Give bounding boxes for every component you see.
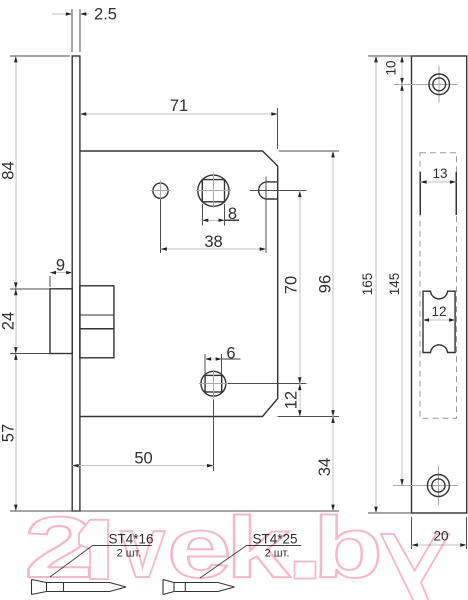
- dim 20 line: [412, 544, 467, 546]
- svg-text:96: 96: [317, 275, 335, 293]
- dim 8 line: [202, 219, 224, 221]
- dim 70/12 vertical line: [299, 191, 301, 417]
- svg-text:165: 165: [360, 273, 375, 296]
- dim 2.5 line and arrows: [52, 13, 72, 15]
- lower square 6mm: [205, 375, 222, 392]
- bottom screw hole inner circle: [432, 479, 445, 492]
- latch cutout with arcs: [423, 291, 455, 352]
- dim 24 arrows: [14, 289, 17, 295]
- case bottom extension right: [278, 416, 339, 418]
- front plate bottom edge extension left: [368, 512, 412, 514]
- screw ST4*16 drawing: [32, 580, 127, 595]
- latch housing internal line upper: [80, 314, 114, 316]
- label ST4*16 leader line: [50, 546, 152, 578]
- dim 165 vertical line: [375, 56, 377, 513]
- bottom screw hole centerline vertical: [437, 466, 439, 505]
- bottom extension line: [10, 510, 339, 512]
- dim 6 line: [205, 358, 222, 360]
- latch housing inside case: [80, 286, 114, 358]
- spindle centermark: [196, 190, 231, 192]
- dim 2.5 extension lines: [71, 9, 73, 52]
- dim 84/24/57 vertical line: [15, 56, 17, 511]
- case top extension right for 96: [279, 150, 339, 152]
- dim 71 line: [80, 113, 278, 115]
- dim 9 line: [50, 272, 72, 274]
- svg-text:ST4*25: ST4*25: [252, 532, 297, 547]
- dim 6 extension lines: [204, 354, 206, 375]
- svg-text:71: 71: [170, 97, 188, 115]
- lower spindle hole circle: [201, 371, 226, 396]
- dim 8 extension lines: [201, 204, 203, 226]
- lower hole extension to 70 dim: [228, 383, 307, 385]
- svg-text:145: 145: [387, 273, 402, 296]
- latch bolt (protruding): [50, 289, 72, 354]
- svg-text:24: 24: [0, 312, 18, 330]
- dim 20 extension lines: [411, 517, 413, 549]
- latch top edge extension: [10, 288, 50, 290]
- dim 50 extension line from lower hole: [212, 400, 214, 472]
- svg-text:38: 38: [204, 233, 222, 251]
- lower hole centermark: [199, 383, 228, 385]
- dim 34 arrows: [331, 417, 335, 423]
- dim 50 line: [72, 465, 213, 467]
- svg-text:2 шт.: 2 шт.: [265, 548, 290, 560]
- front plate top edge extension left: [368, 55, 412, 57]
- spindle square 8mm: [202, 180, 224, 202]
- svg-text:50: 50: [134, 450, 152, 468]
- svg-text:20: 20: [433, 529, 448, 544]
- dim 10/145 vertical line: [401, 56, 403, 486]
- dim 84 arrows: [14, 56, 17, 62]
- dim 38 line: [161, 248, 267, 250]
- slot centerline extension to 70 dim: [250, 190, 307, 192]
- dim 38 extension lines: [160, 199, 162, 253]
- bottom screw hole outer circle: [427, 475, 449, 497]
- spindle hole circle: [198, 175, 229, 206]
- dim 12 arrows: [298, 384, 302, 390]
- top screw hole centerline vertical: [438, 66, 440, 103]
- front faceplate outline: [412, 56, 467, 513]
- top screw hole inner circle: [433, 78, 446, 91]
- dim 10 arrows: [400, 56, 404, 62]
- dashed cutout zone: [420, 153, 457, 419]
- svg-text:8: 8: [228, 205, 237, 223]
- dim 96 arrows: [331, 151, 335, 157]
- svg-text:9: 9: [56, 257, 65, 275]
- svg-text:10: 10: [384, 60, 399, 75]
- faceplate side view (thin strip): [72, 56, 80, 511]
- top screw hole outer circle: [429, 74, 450, 95]
- svg-text:57: 57: [0, 424, 18, 442]
- dim 96/34 vertical line: [332, 151, 334, 511]
- svg-text:13: 13: [432, 166, 447, 181]
- svg-text:2 шт.: 2 шт.: [117, 548, 142, 560]
- latch bottom edge extension: [10, 353, 50, 355]
- dim 57 arrows: [14, 354, 17, 360]
- dim 13 extension overlays: [419, 172, 421, 215]
- latch housing internal line lower: [80, 328, 114, 330]
- dim 12 line (front plate): [423, 319, 455, 321]
- screw ST4*25 drawing: [163, 580, 235, 595]
- svg-text:12: 12: [431, 304, 446, 319]
- slot hole at case right edge: [259, 182, 278, 199]
- bottom screw hole centerline horizontal: [393, 485, 458, 487]
- svg-text:6: 6: [226, 344, 235, 362]
- dim 13 line: [420, 181, 456, 183]
- svg-text:70: 70: [283, 276, 301, 294]
- cylinder hole centermark: [151, 190, 171, 192]
- lock case outline: [80, 151, 278, 417]
- svg-text:34: 34: [316, 458, 334, 476]
- svg-text:ST4*16: ST4*16: [108, 532, 153, 547]
- dim 71 extension line right: [277, 108, 279, 149]
- svg-text:84: 84: [0, 161, 18, 179]
- dim 84 extension top: [10, 55, 70, 57]
- label ST4*25 leader line: [200, 546, 301, 579]
- dim 145 arrows: [400, 84, 404, 90]
- dim 70 arrows: [298, 191, 302, 197]
- dim 9 extension line: [49, 276, 51, 287]
- svg-text:2.5: 2.5: [94, 6, 117, 24]
- cylinder fixing hole: [153, 183, 168, 198]
- top screw hole centerline horizontal: [394, 83, 458, 85]
- svg-text:12: 12: [283, 391, 301, 409]
